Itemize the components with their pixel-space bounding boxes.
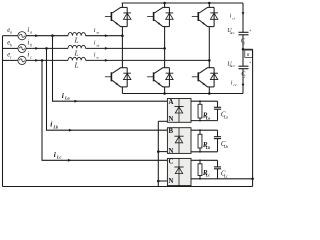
svg-text:Lb: Lb xyxy=(205,145,210,150)
svg-text:c: c xyxy=(30,55,32,59)
transistor Q6 (lower IGBT leg 3) xyxy=(192,68,208,87)
arrow i_a xyxy=(35,34,39,37)
node load return / neutral xyxy=(251,178,254,181)
node R_Lc top xyxy=(199,159,201,161)
node n (boxed label) xyxy=(245,50,253,58)
load block B (rectifier box) xyxy=(167,128,191,154)
wire (R_Lc to bottom) xyxy=(199,176,201,179)
node tap c xyxy=(41,59,44,62)
wire (inductor to leg 3) xyxy=(86,59,210,61)
svg-text:La: La xyxy=(205,115,210,120)
svg-text:N: N xyxy=(169,178,174,185)
diode DB (inside block B) xyxy=(174,128,183,154)
source e_c xyxy=(18,56,26,64)
svg-text:b: b xyxy=(30,43,32,47)
diode D5 (lower freewheel leg 2) xyxy=(166,68,174,87)
wire (block C - return) xyxy=(191,178,253,180)
wire (bottom cell 1 bottom rail) xyxy=(120,86,127,88)
svg-text:dc1: dc1 xyxy=(230,31,235,35)
capacitor C1 xyxy=(239,32,249,35)
wire (left lead source e_a) xyxy=(3,35,18,37)
svg-text:n: n xyxy=(247,52,250,58)
svg-text:i: i xyxy=(27,52,29,59)
capacitor C2 xyxy=(239,66,249,69)
svg-text:+: + xyxy=(249,59,252,64)
transistor Q5 (lower IGBT leg 2) xyxy=(147,68,163,87)
svg-text:A: A xyxy=(169,99,174,106)
arrow i_sc xyxy=(105,59,109,62)
svg-text:i: i xyxy=(27,27,29,34)
wire (tap phase c down) xyxy=(42,60,167,160)
diode D4 (lower freewheel leg 1) xyxy=(123,68,131,87)
node DC midpoint xyxy=(242,48,245,51)
svg-text:sb: sb xyxy=(96,43,99,47)
svg-text:N: N xyxy=(169,148,174,155)
wire (R_Lb drop) xyxy=(199,130,201,134)
resistor R_Lc xyxy=(198,164,202,176)
svg-text:Lc: Lc xyxy=(56,155,62,160)
wire (block C + output) xyxy=(191,159,218,161)
wire (R_Lb to bottom) xyxy=(199,148,201,152)
svg-text:Lb: Lb xyxy=(223,144,228,149)
arrow i_sa xyxy=(105,34,109,37)
capacitor C_La xyxy=(214,101,221,120)
source e_a xyxy=(18,32,26,40)
svg-text:sc: sc xyxy=(96,55,99,59)
capacitor C_Lb xyxy=(214,130,221,152)
svg-text:N: N xyxy=(169,116,174,123)
arrow i_sb xyxy=(105,47,109,50)
transistor Q4 (lower IGBT leg 1) xyxy=(105,68,121,87)
diode DC (inside block C) xyxy=(174,158,183,185)
wire (leg 1 drop from + bus) xyxy=(121,3,123,7)
wire (leg 1 drop to - bus) xyxy=(121,87,123,94)
wire (midpoint to C2) xyxy=(242,49,244,66)
wire (C1 to midpoint) xyxy=(242,35,244,50)
wire (leg 2 drop from + bus) xyxy=(164,3,166,7)
svg-text:L: L xyxy=(74,49,79,57)
svg-text:L: L xyxy=(74,37,79,45)
node leg 2 positive bus xyxy=(163,2,166,5)
wire (leg 3 drop from + bus) xyxy=(208,3,210,7)
arrow i_Lc xyxy=(68,159,72,162)
wire (load neutral bus) xyxy=(157,121,159,186)
svg-text:La: La xyxy=(223,114,228,119)
wire (tap phase a down) xyxy=(53,36,168,102)
wire (R_Lc drop) xyxy=(199,160,201,164)
node R_Lb bottom xyxy=(199,151,201,153)
node R_Lb top xyxy=(199,129,201,131)
wire (block A - return) xyxy=(191,120,218,122)
wire (bottom cell 1 top rail) xyxy=(120,67,127,69)
wire (source neutral bus) xyxy=(2,36,4,187)
inductor L (phase b) xyxy=(68,45,86,48)
svg-text:sa: sa xyxy=(96,31,99,35)
diode D6 (lower freewheel leg 3) xyxy=(210,68,218,87)
svg-text:Lb: Lb xyxy=(52,124,58,129)
wire (chain + bus to C1) xyxy=(242,3,244,32)
svg-text:Lc: Lc xyxy=(205,173,210,178)
wire (top cell 3 rail) xyxy=(207,6,214,8)
arrow i_c xyxy=(35,59,39,62)
wire (N stub block C) xyxy=(158,180,167,182)
svg-text:i: i xyxy=(27,40,29,47)
diode D3 (upper freewheel leg 3) xyxy=(210,7,218,26)
arrow i_b xyxy=(35,47,39,50)
wire (bottom cell 2 bottom rail) xyxy=(163,86,170,88)
wire (inductor to leg 1) xyxy=(86,35,123,37)
wire (leg 2 midpoint) xyxy=(164,27,166,68)
wire (leg 2 drop to - bus) xyxy=(164,87,166,94)
source e_b xyxy=(18,44,26,52)
wire (bottom neutral bus) xyxy=(3,186,253,188)
inductor L (phase a) xyxy=(68,33,86,36)
svg-text:c2: c2 xyxy=(233,83,237,87)
svg-text:La: La xyxy=(64,96,70,101)
svg-text:+: + xyxy=(249,28,252,33)
wire (block B - return) xyxy=(191,151,218,153)
wire (block B + output) xyxy=(191,129,218,131)
wire (top cell 2 bottom rail) xyxy=(163,26,170,28)
node R_La top xyxy=(199,100,201,102)
wire (bottom cell 2 top rail) xyxy=(163,67,170,69)
svg-text:a: a xyxy=(30,31,32,35)
wire (midpoint stub to n) xyxy=(243,48,253,50)
svg-text:c1: c1 xyxy=(232,16,236,20)
capacitor C_Lc xyxy=(214,160,221,179)
wire (DC negative bus) xyxy=(122,93,243,95)
node leg 3 negative bus xyxy=(208,92,211,95)
diode DA (inside block A) xyxy=(174,99,183,123)
node phase b / leg 2 xyxy=(163,47,166,50)
node R_Lc bottom xyxy=(199,178,201,180)
wire (leg 3 midpoint) xyxy=(208,27,210,68)
wire (inductor to leg 2) xyxy=(86,47,165,49)
inductor L (phase c) xyxy=(68,57,86,60)
wire (leg 1 midpoint) xyxy=(121,27,123,68)
load block A (rectifier box) xyxy=(167,99,191,123)
wire (R_La to bottom) xyxy=(199,118,201,121)
node phase c / leg 3 xyxy=(208,59,211,62)
wire (top cell 1 bottom rail) xyxy=(120,26,127,28)
wire (R_La drop) xyxy=(199,101,201,104)
node tap b xyxy=(45,47,48,50)
resistor R_La xyxy=(198,104,202,118)
svg-text:L: L xyxy=(74,61,79,69)
node tap a xyxy=(51,34,54,37)
node phase a / leg 1 xyxy=(121,34,124,37)
wire (tap phase b down) xyxy=(47,48,168,130)
svg-text:2: 2 xyxy=(244,74,246,78)
wire (left lead source e_b) xyxy=(3,47,18,49)
wire (left lead source e_c) xyxy=(3,59,18,61)
wire (phase a to inductor) xyxy=(26,35,68,37)
node R_La bottom xyxy=(199,120,201,122)
svg-text:c: c xyxy=(10,55,12,59)
wire (bottom cell 3 bottom rail) xyxy=(207,86,214,88)
arrow i_Lb xyxy=(69,129,73,132)
svg-text:a: a xyxy=(10,31,12,35)
wire (bottom cell 3 top rail) xyxy=(207,67,214,69)
wire (phase c to inductor) xyxy=(26,59,68,61)
svg-text:dc2: dc2 xyxy=(230,64,235,68)
arrow i_La xyxy=(74,100,78,103)
diode D1 (upper freewheel leg 1) xyxy=(123,7,131,26)
transistor Q2 (upper IGBT leg 2) xyxy=(147,7,163,26)
node N stub C xyxy=(157,180,160,183)
wire (N stub block A) xyxy=(158,120,167,122)
diode D2 (upper freewheel leg 2) xyxy=(166,7,174,26)
wire (C2 to - bus) xyxy=(242,69,244,94)
svg-text:C: C xyxy=(169,159,174,166)
wire (top cell 2 rail) xyxy=(163,6,170,8)
svg-text:b: b xyxy=(10,43,12,47)
wire (DC positive bus) xyxy=(122,2,243,4)
arrow i_c2 xyxy=(242,84,245,87)
node leg 2 negative bus xyxy=(163,92,166,95)
resistor R_Lb xyxy=(198,134,202,148)
node leg 3 positive bus xyxy=(208,2,211,5)
svg-text:B: B xyxy=(169,128,174,135)
wire (neutral from n down right edge) xyxy=(252,49,254,186)
node N stub B xyxy=(157,150,160,153)
svg-text:Lc: Lc xyxy=(223,173,228,178)
wire (leg 3 drop to - bus) xyxy=(208,87,210,94)
transistor Q3 (upper IGBT leg 3) xyxy=(192,7,208,26)
wire (block A + output) xyxy=(191,100,218,102)
arrow i_c1 xyxy=(242,12,245,15)
load block C (rectifier box) xyxy=(167,158,191,185)
transistor Q1 (upper IGBT leg 1) xyxy=(105,7,121,26)
wire (top cell 1 rail) xyxy=(120,6,127,8)
wire (top cell 3 bottom rail) xyxy=(207,26,214,28)
wire (N stub block B) xyxy=(158,151,167,153)
wire (phase b to inductor) xyxy=(26,47,68,49)
